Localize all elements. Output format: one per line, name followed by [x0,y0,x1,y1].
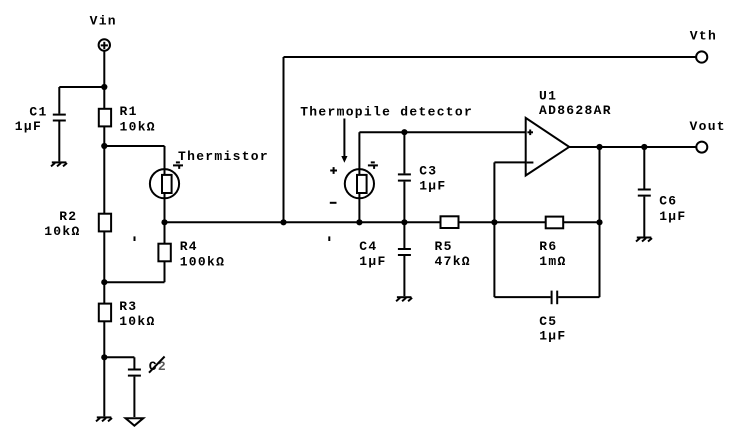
resistor R6 [546,217,564,229]
thermistor temperature mark [173,162,183,169]
svg-text:1µF: 1µF [419,179,446,194]
arrow ground C2 [126,418,144,426]
svg-text:AD8628AR: AD8628AR [539,103,612,118]
C2 label struck through [149,357,167,374]
wire to C2 [104,356,134,358]
node junction R3/C2 [101,354,107,360]
svg-text:10kΩ: 10kΩ [44,224,80,239]
svg-text:Vth: Vth [690,29,717,44]
svg-text:1µF: 1µF [15,119,42,134]
svg-text:C3: C3 [419,164,437,179]
svg-text:10kΩ: 10kΩ [120,119,156,134]
wire R4 bottom to R2/R3 junction [104,281,164,283]
node junction Vth/bus [280,219,286,225]
wire junction to C1 [59,86,104,88]
capacitor C6 [638,147,651,237]
wire R2 to R3 [103,231,105,303]
thermopile minus label [330,202,337,204]
resistor R3 [99,304,111,322]
wire Vth tap vertical [283,57,285,222]
wire thermistor bottom [164,193,166,223]
node junction top rail/C3 [401,129,407,135]
svg-text:100kΩ: 100kΩ [180,254,226,269]
tick mark middle [328,236,330,241]
wire op-amp output [569,146,696,148]
svg-text:C4: C4 [359,239,377,254]
ground C4 [396,297,412,301]
svg-text:1µF: 1µF [659,209,686,224]
ground C6 [636,238,652,242]
svg-text:C2: C2 [149,359,167,374]
thermopile detector [345,169,374,198]
svg-text:C1: C1 [29,104,47,119]
svg-text:R2: R2 [59,209,77,224]
svg-text:1µF: 1µF [539,329,566,344]
thermistor [150,169,179,198]
thermopile temperature mark [368,162,378,169]
node junction feedback/bus [491,219,497,225]
svg-text:R4: R4 [180,239,198,254]
svg-text:R1: R1 [120,104,138,119]
wire thermopile top [358,132,360,175]
wire thermopile bottom [358,193,360,223]
wire Vin down to R1 [103,51,105,109]
node junction thermistor/R4/bus [161,219,167,225]
svg-text:47kΩ: 47kΩ [435,254,471,269]
terminal Vin [99,39,110,50]
svg-text:U1: U1 [539,89,557,104]
node junction R1/R2/thermistor [101,143,107,149]
capacitor C1 [53,87,66,161]
arrow pointer to thermopile [341,119,347,163]
svg-text:Thermistor: Thermistor [178,149,269,164]
wire feedback vertical [493,162,495,297]
node junction R6/output tap [596,219,602,225]
thermopile plus label [330,167,337,174]
capacitor C2 (crossed out) [128,357,141,417]
node junction Vin/C1 [101,84,107,90]
resistor R2 [99,214,111,232]
svg-text:R5: R5 [435,239,453,254]
wire output tap vertical [599,147,601,297]
wire thermistor top [164,146,166,176]
terminal Vth [696,51,707,62]
capacitor C5 [494,291,599,305]
svg-text:Vout: Vout [690,119,726,134]
resistor R4 [158,222,170,282]
node junction C3/C4/bus [401,219,407,225]
wire inverting input [494,161,525,163]
resistor R5 [441,216,459,228]
svg-text:1mΩ: 1mΩ [539,254,566,269]
wire main bus [165,221,600,223]
resistor R1 [99,109,111,127]
svg-text:C6: C6 [659,194,677,209]
capacitor C4 [398,222,411,296]
terminal Vout [696,142,707,153]
node junction output/C6 [641,144,647,150]
op-amp U1 [526,118,570,176]
tick mark left [134,236,136,241]
node junction R2/R3/R4 [101,279,107,285]
svg-text:C5: C5 [539,314,557,329]
svg-text:R6: R6 [539,239,557,254]
wire top rail to op-amp [359,131,525,133]
node junction thermopile/bus [356,219,362,225]
node junction output/feedback [596,144,602,150]
svg-text:10kΩ: 10kΩ [119,314,155,329]
wire Vth horizontal [284,56,697,58]
svg-text:1µF: 1µF [359,254,386,269]
svg-text:Vin: Vin [90,13,117,28]
svg-text:R3: R3 [119,299,137,314]
svg-text:Thermopile detector: Thermopile detector [300,105,473,120]
capacitor C3 [398,132,411,222]
wire R1 to R2 [103,126,105,213]
wire junction to thermistor [104,145,164,147]
wire R3 to ground [103,321,105,416]
ground C1 [51,162,67,166]
ground R3 [96,417,112,421]
